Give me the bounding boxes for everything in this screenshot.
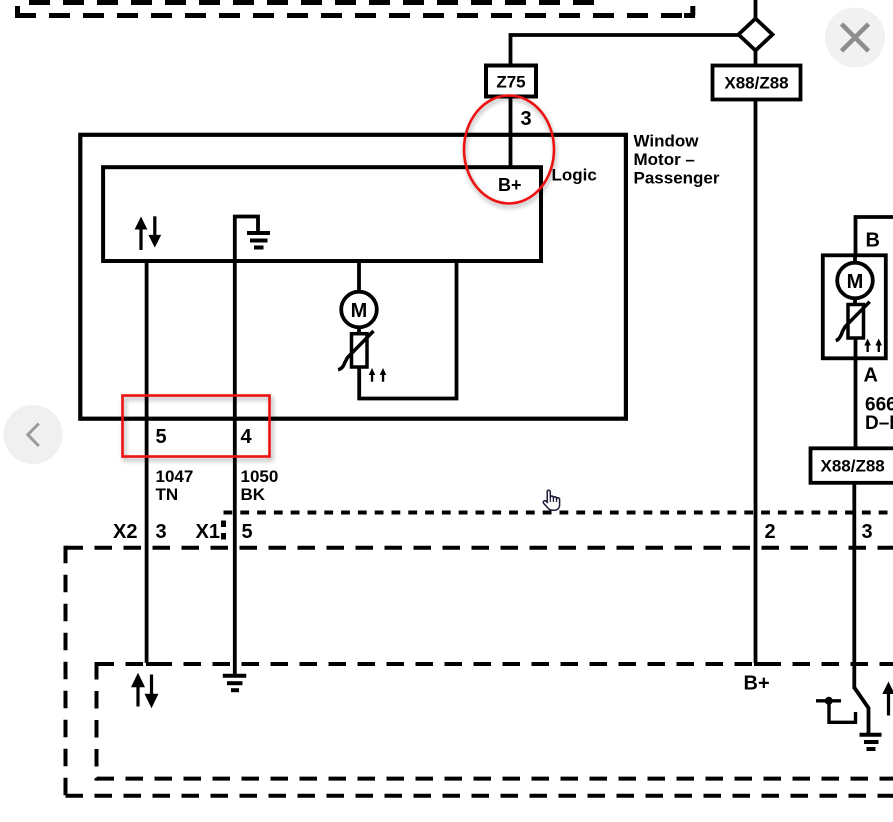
dashed box (top, cut off) bottom edge <box>28 0 594 5</box>
wire: motor branch inside window motor box <box>359 261 457 399</box>
label Window Motor - Passenger <box>634 132 720 188</box>
ground symbol (inner box) <box>235 217 270 262</box>
outer dashed module box <box>66 546 893 798</box>
double up arrows (thermal, right) <box>864 339 882 353</box>
wire: right branch from off-page <box>856 217 893 256</box>
svg-text:D–B: D–B <box>865 413 893 434</box>
svg-text:Z75: Z75 <box>496 73 525 92</box>
svg-text:Motor –: Motor – <box>634 150 695 169</box>
double up arrows (thermal, window motor) <box>369 368 387 382</box>
svg-text:Logic: Logic <box>552 166 597 185</box>
svg-text:X1: X1 <box>196 521 220 543</box>
dotted harness boundary <box>224 513 893 542</box>
up/down arrows (module, lower left) <box>131 673 159 708</box>
close button <box>825 8 885 68</box>
junction diamond <box>739 19 773 51</box>
window motor outer box <box>80 135 626 419</box>
inner dashed module box <box>97 662 893 781</box>
up/down arrows (inner box) <box>135 216 162 250</box>
svg-text:BK: BK <box>241 485 266 504</box>
hand cursor <box>543 490 559 510</box>
svg-text:Window: Window <box>634 132 700 151</box>
svg-text:Passenger: Passenger <box>634 169 720 188</box>
svg-text:4: 4 <box>241 426 253 448</box>
svg-text:M: M <box>847 271 864 293</box>
ground symbol (switch) <box>860 735 882 749</box>
svg-text:3: 3 <box>521 108 532 130</box>
connector label box X88/Z88 (right) <box>811 448 893 483</box>
switch blade (diagonal) <box>854 688 868 734</box>
svg-text:1050: 1050 <box>241 467 279 486</box>
connector label box X88/Z88 (top) <box>713 66 801 100</box>
svg-text:B+: B+ <box>498 175 522 195</box>
svg-text:TN: TN <box>156 485 179 504</box>
prev navigation button <box>4 405 63 464</box>
wire: circuit 1047 (pin 5) <box>145 261 149 663</box>
red annotation rectangle (pins 5/4 highlight) <box>123 396 270 457</box>
svg-text:B+: B+ <box>744 673 770 695</box>
thermal protector (window motor) <box>338 331 374 370</box>
svg-text:X88/Z88: X88/Z88 <box>724 74 788 93</box>
wire: branch from diamond to Z75 <box>511 35 740 66</box>
svg-text:A: A <box>864 365 878 387</box>
svg-text:X2: X2 <box>113 521 137 543</box>
motor circle M (right) <box>837 263 873 299</box>
wire: switch feed below X88/Z88 <box>852 483 856 689</box>
svg-text:5: 5 <box>156 426 167 448</box>
svg-text:X88/Z88: X88/Z88 <box>821 457 885 476</box>
svg-text:M: M <box>351 300 368 322</box>
svg-text:5: 5 <box>242 521 253 543</box>
svg-text:2: 2 <box>765 521 776 543</box>
wire: Z75 to window motor B+ pin <box>509 96 513 168</box>
wire inside right motor box <box>853 255 857 448</box>
window motor logic inner box <box>103 167 541 261</box>
svg-text:3: 3 <box>156 521 167 543</box>
thermal protector (right) <box>836 302 870 341</box>
svg-text:1047: 1047 <box>156 467 194 486</box>
passenger switch motor box <box>823 255 886 358</box>
ground symbol (module, lower) <box>223 676 247 690</box>
up arrow (switch, right edge) <box>882 682 893 716</box>
wire: circuit 1050 (pin 4) <box>233 261 237 675</box>
switch actuator linkage <box>816 697 856 723</box>
svg-text:B: B <box>866 230 880 252</box>
wire: main B+ feed vertical (diamond to lower dashed box) <box>754 50 758 663</box>
dashed connector box bottom edge <box>15 6 695 16</box>
wire: vertical above diamond <box>754 0 758 20</box>
svg-text:3: 3 <box>862 521 873 543</box>
fuse label box Z75 <box>486 66 536 97</box>
red annotation ellipse (B+ pin highlight) <box>464 96 554 204</box>
motor circle M (window motor) <box>341 292 377 328</box>
